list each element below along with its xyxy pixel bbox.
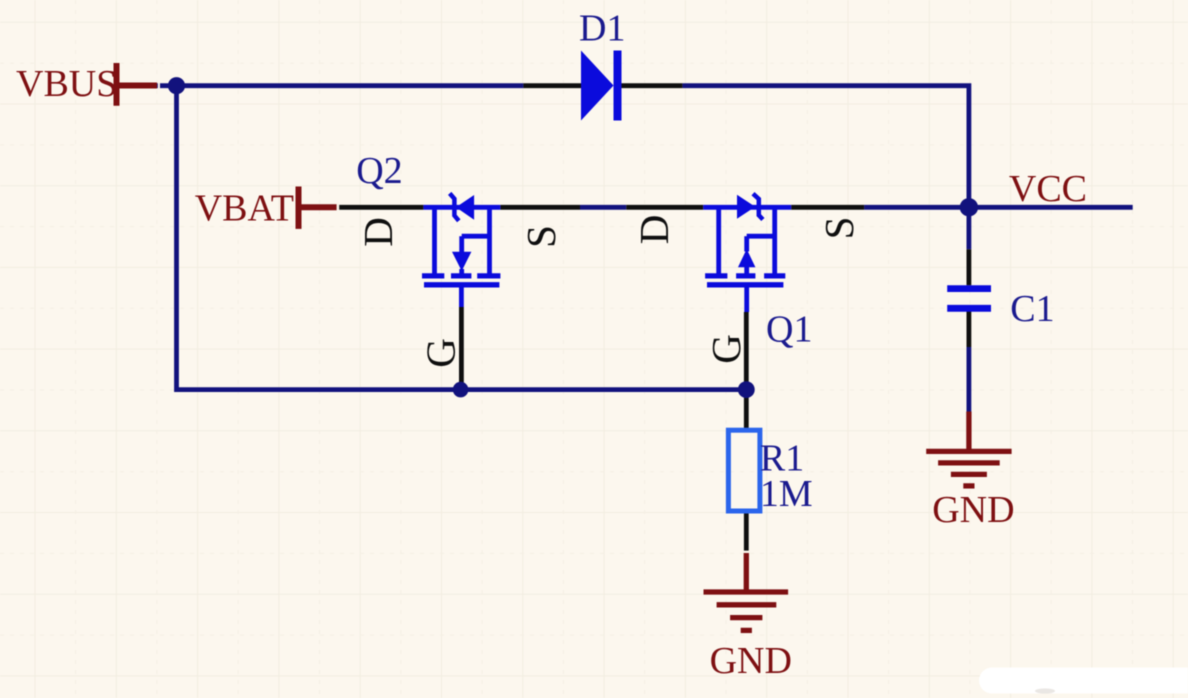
pin-end gap at VBAT [337,204,340,211]
node Q2 gate junction [453,382,469,398]
resistor R1 body [728,430,760,511]
svg-text:D: D [631,215,677,245]
Q2 pin name G [418,338,464,368]
svg-text:S: S [816,217,862,240]
wire between Q2 source and Q1 drain [580,205,626,210]
svg-text:C1: C1 [1010,288,1054,330]
svg-text:G: G [703,334,749,364]
node Q1 gate junction [738,381,755,398]
wire VCC junction down to C1 [967,207,972,249]
white patch (erased watermark) [979,668,1188,694]
label D1 [579,7,625,49]
node VBUS junction [168,77,185,94]
power port VBAT [195,187,339,230]
transistor Q1 pin S lead [791,205,864,210]
power port VCC (net label) [1009,168,1087,210]
label C1 [1010,288,1054,330]
ground GND (left, R1) [704,552,792,682]
transistor Q1 pin G lead [744,312,749,390]
capacitor C1 pin 2 lead [967,312,972,348]
svg-text:Q2: Q2 [356,150,402,192]
pin-end gap at VBUS [158,82,160,89]
Q1 pin name D [631,215,677,245]
node VCC junction [960,198,978,216]
Q2 pin name S [518,225,564,248]
svg-text:VBUS: VBUS [16,63,117,105]
wire gate bus horizontal [461,387,747,392]
wire VCC rail [864,205,1133,210]
label Q1 [766,308,812,350]
wire C1 to GND [967,347,972,412]
pin-end gap above left GND [743,551,750,553]
svg-text:Q1: Q1 [766,308,812,350]
svg-text:GND: GND [710,640,792,682]
power port VBUS [16,63,157,106]
diode D1 body [581,51,622,121]
svg-text:1M: 1M [760,473,813,515]
svg-text:VCC: VCC [1009,168,1087,210]
diode D1 pin 2 (cathode lead) [621,83,682,88]
svg-text:VBAT: VBAT [195,188,294,230]
capacitor C1 pin 1 lead [967,249,972,285]
transistor Q2 pin S lead [500,205,580,210]
Q1 pin name S [816,217,862,240]
wire left vertical VBUS to gate bus [177,86,461,390]
label R1 [760,438,804,480]
transistor Q2 pin D lead [337,205,423,210]
svg-text:S: S [518,225,564,248]
transistor Q1 pin D lead [626,205,703,210]
resistor R1 pin 2 lead [744,511,749,552]
wire D1 cathode to top-right corner [682,86,969,208]
transistor Q1 body [703,194,791,312]
Q1 pin name G [703,334,749,364]
wire VBUS horizontal to D1 anode [157,83,523,88]
value 1M [760,473,813,515]
svg-text:D: D [355,217,401,247]
capacitor C1 plates [947,289,991,309]
ground GND (right, C1) [926,412,1014,532]
svg-text:D1: D1 [579,7,625,49]
Q2 pin name D [355,217,401,247]
svg-text:GND: GND [932,489,1014,531]
transistor Q2 pin G lead [459,307,464,390]
label Q2 [356,150,402,192]
resistor R1 pin 1 lead [744,390,749,431]
svg-text:G: G [418,338,464,368]
diode D1 pin 1 (anode lead) [523,83,581,88]
transistor Q2 body [422,193,500,307]
